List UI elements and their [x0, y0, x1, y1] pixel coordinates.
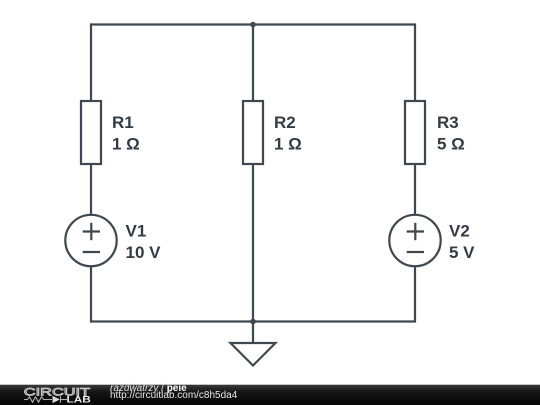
voltage source V1	[65, 215, 161, 266]
svg-text:10 V: 10 V	[126, 243, 162, 262]
footer bar	[0, 385, 540, 405]
wire V2 to bottom rail	[414, 266, 416, 323]
wire V1 to bottom rail	[90, 266, 92, 323]
svg-text:1 Ω: 1 Ω	[112, 135, 140, 154]
svg-text:R3: R3	[437, 113, 459, 132]
wire R1 to V1	[90, 164, 92, 215]
node top junction	[250, 22, 256, 28]
resistor R2	[243, 101, 302, 164]
ground	[231, 343, 276, 366]
wire top rail	[90, 23, 416, 25]
svg-text:LAB: LAB	[67, 395, 92, 405]
svg-text:1 Ω: 1 Ω	[274, 135, 302, 154]
svg-text:R1: R1	[112, 113, 134, 132]
svg-text:V1: V1	[126, 222, 147, 241]
wire bottom rail	[90, 320, 416, 322]
wire middle branch lower	[252, 164, 254, 322]
voltage source V2	[389, 215, 475, 266]
logo resistor zigzag and diode	[24, 396, 67, 402]
svg-text:5 Ω: 5 Ω	[437, 135, 465, 154]
wire R3 to V2	[414, 164, 416, 215]
wire middle branch upper	[252, 25, 254, 102]
resistor R3	[405, 101, 465, 164]
svg-text:V2: V2	[449, 222, 470, 241]
wire right branch upper	[414, 24, 416, 102]
svg-text:http://circuitlab.com/c8h5da4: http://circuitlab.com/c8h5da4	[110, 390, 238, 401]
node bottom junction	[250, 319, 256, 325]
svg-text:5 V: 5 V	[449, 243, 475, 262]
svg-text:R2: R2	[274, 113, 296, 132]
resistor R1	[81, 101, 140, 164]
wire left branch upper	[90, 24, 92, 102]
wire ground stub	[252, 322, 254, 344]
